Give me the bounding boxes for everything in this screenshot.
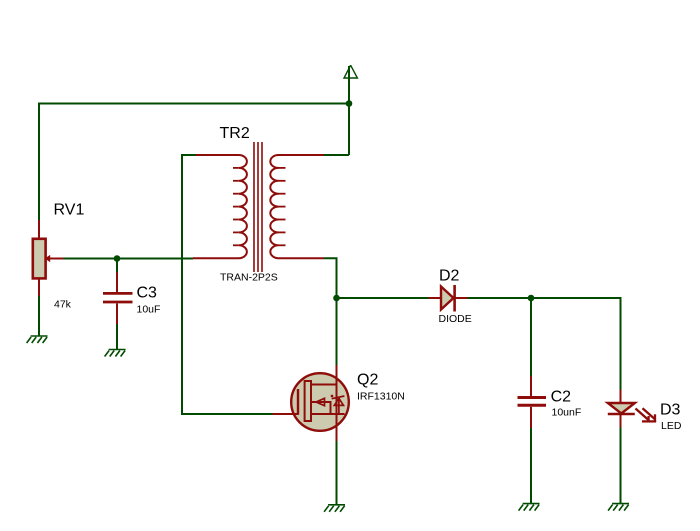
svg-text:10unF: 10unF [552, 407, 582, 419]
svg-text:D2: D2 [439, 268, 460, 285]
svg-text:D3: D3 [660, 402, 681, 419]
svg-text:TR2: TR2 [220, 125, 250, 142]
svg-text:C3: C3 [137, 284, 158, 301]
svg-text:47k: 47k [54, 299, 72, 311]
svg-text:DIODE: DIODE [439, 313, 472, 325]
svg-text:IRF1310N: IRF1310N [357, 390, 405, 402]
svg-text:LED: LED [661, 420, 682, 432]
svg-text:C2: C2 [551, 389, 572, 406]
svg-text:TRAN-2P2S: TRAN-2P2S [220, 272, 278, 284]
svg-text:RV1: RV1 [54, 202, 85, 219]
svg-text:10uF: 10uF [137, 303, 161, 315]
svg-text:Q2: Q2 [357, 372, 378, 389]
